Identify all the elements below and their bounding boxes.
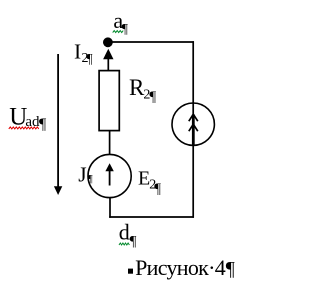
svg-text:¶: ¶ (39, 116, 47, 133)
svg-text:¶: ¶ (86, 52, 93, 67)
current source circle (right branch) (172, 103, 214, 145)
wire right upper (192, 41, 194, 115)
current source chevron lower (189, 124, 198, 131)
current I2 arrow head (103, 49, 113, 59)
voltage arrow U_ad stem (57, 54, 59, 187)
spell squiggle under U_ad (9, 127, 39, 129)
resistor R2 body (99, 71, 119, 131)
svg-text:¶: ¶ (130, 233, 137, 249)
svg-text:¶: ¶ (226, 258, 235, 280)
svg-text:¶: ¶ (88, 173, 93, 185)
wire resistor to EMF circle (109, 131, 111, 155)
grammar squiggle under a (113, 31, 124, 33)
grammar dots under d (119, 243, 129, 245)
caption bullet square (128, 269, 133, 274)
wire right lower (192, 145, 194, 218)
svg-text:¶: ¶ (154, 181, 161, 197)
EMF arrow head (105, 163, 113, 171)
wire left lower (circle to bottom) (109, 197, 111, 218)
node a (103, 37, 113, 47)
svg-text:¶: ¶ (149, 89, 156, 105)
svg-text:I: I (74, 39, 81, 63)
svg-text:J: J (78, 162, 86, 186)
svg-text:¶: ¶ (122, 22, 129, 37)
wire bottom (109, 216, 194, 218)
svg-text:Рисунок·4: Рисунок·4 (135, 255, 226, 280)
current source arrow stem (192, 115, 195, 147)
svg-text:d: d (119, 220, 130, 245)
wire top (a to right branch) (108, 41, 194, 43)
voltage arrow U_ad head (down) (54, 186, 62, 195)
EMF source circle E2 (88, 154, 131, 197)
wire I2 arrow to resistor (107, 59, 109, 71)
current source chevron upper (189, 114, 198, 121)
EMF arrow stem (109, 170, 111, 186)
